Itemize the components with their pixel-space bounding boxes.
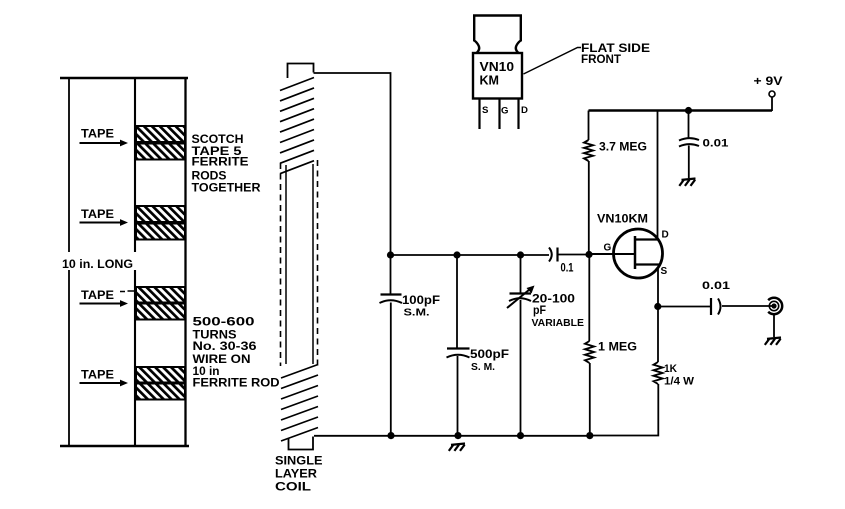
svg-text:COIL: COIL [275, 480, 312, 494]
resistor 1 MEG [585, 341, 594, 363]
svg-text:1/4 W: 1/4 W [664, 376, 695, 388]
VN10KM package body [473, 53, 522, 99]
transistor Q1 drain arm [636, 238, 659, 240]
capacitor 500pF S.M. [447, 349, 470, 358]
svg-text:SINGLE: SINGLE [275, 454, 323, 468]
svg-text:G: G [604, 243, 612, 254]
label: VN10 KM on package [480, 59, 515, 88]
coil L1 bottom cap [289, 437, 314, 450]
node: bottom rail / 500pF ground [454, 432, 461, 439]
wire: 500pF branch lower [457, 356, 459, 436]
capacitor 0.1 gate coupling [549, 248, 558, 262]
wire: coupling cap to output jack [722, 305, 772, 307]
label: 500-600 TURNS No. 30-36 WIRE ON 10 in FERRITE ROD [193, 315, 280, 390]
svg-text:S: S [482, 105, 489, 116]
+9V terminal circle [769, 91, 775, 97]
svg-text:S.M.: S.M. [404, 307, 430, 319]
wire: 1K to bottom rail corner [589, 384, 658, 436]
wire: 3.7 MEG to gate node [588, 161, 590, 255]
coil L1 top cap [288, 64, 314, 79]
label: 0.01 output [702, 280, 730, 292]
capacitor 100pF S.M. [380, 295, 403, 304]
ferrite rod assembly middle line [134, 78, 136, 446]
tape wrap hatched band 6 [136, 304, 185, 320]
wire: 1 MEG to bottom rail [589, 363, 591, 436]
coil L1 form dashed outline [281, 160, 318, 368]
transistor Q1 gate bar [634, 236, 637, 269]
TAPE arrow 2 [80, 219, 129, 226]
svg-text:VARIABLE: VARIABLE [532, 318, 585, 329]
TAPE arrow 1 [80, 140, 129, 147]
svg-text:FERRITE: FERRITE [192, 155, 249, 169]
tape wrap hatched band 4 [136, 224, 185, 240]
wire: 100pF lower to bottom rail [390, 303, 392, 436]
node: 500pF top junction [453, 251, 460, 258]
svg-text:TOGETHER: TOGETHER [192, 181, 261, 195]
wire: 0.1 cap to gate node [559, 254, 590, 256]
tape wrap hatched band 7 [136, 367, 185, 383]
leader line: flat side front [524, 48, 582, 75]
TAPE label 2 [81, 207, 114, 221]
wire: +9V top rail [589, 109, 773, 111]
svg-text:TAPE: TAPE [81, 288, 114, 302]
TAPE label 3 [81, 288, 114, 302]
label: G pin [604, 243, 612, 254]
label: 20-100 pF VARIABLE [532, 292, 585, 330]
VN10KM package tab [474, 16, 521, 54]
wire: gate bus [391, 254, 550, 256]
label: 10 in. LONG [57, 252, 137, 271]
node: source/output junction [654, 303, 661, 310]
svg-text:500pF: 500pF [470, 347, 509, 361]
svg-text:KM: KM [480, 73, 500, 88]
ground: bypass cap [679, 179, 695, 186]
label: SINGLE LAYER COIL [275, 454, 323, 494]
node: bottom rail / variable [517, 432, 524, 439]
node: tank top junction [387, 251, 394, 258]
svg-text:500-600: 500-600 [193, 315, 255, 329]
tape wrap hatched band 8 [136, 384, 185, 400]
svg-text:1K: 1K [664, 363, 677, 375]
wire: coil top to tank node [314, 73, 391, 254]
node: bottom rail / tank [387, 432, 394, 439]
wire: output jack to ground [773, 315, 775, 338]
label: 1 MEG [598, 340, 637, 354]
tape wrap hatched band 2 [136, 144, 185, 160]
VN10KM package lead S [478, 99, 480, 130]
wire: rail riser to +9V terminal [771, 97, 773, 111]
wire: bypass cap to ground [688, 146, 690, 179]
transistor Q1 VN10KM circle [614, 229, 663, 278]
svg-text:TAPE: TAPE [81, 368, 114, 382]
label: 0.01 bypass [703, 138, 729, 150]
output jack connector [768, 298, 782, 314]
wire: drain vertical from rail [657, 111, 659, 238]
svg-text:100pF: 100pF [402, 293, 440, 307]
svg-text:S: S [661, 266, 668, 277]
label: VN10KM [597, 212, 648, 226]
resistor 3.7 MEG [584, 140, 593, 161]
label: package pins S G D [482, 105, 528, 117]
svg-text:TAPE: TAPE [81, 126, 114, 140]
wire: gate node to transistor gate [589, 253, 634, 255]
ferrite rod assembly top edge [60, 77, 188, 80]
capacitor 0.01 output coupling [711, 298, 721, 315]
TAPE arrow 3 [80, 300, 129, 307]
ground: bottom rail [449, 444, 465, 451]
svg-text:0.1: 0.1 [561, 263, 574, 275]
node: gate junction [585, 251, 592, 258]
svg-text:FRONT: FRONT [581, 54, 621, 66]
wire: bias divider vertical upper (rail to 3.7 MEG) [588, 111, 590, 141]
svg-text:LAYER: LAYER [275, 467, 317, 481]
tape wrap hatched band 5 [136, 287, 185, 303]
svg-text:1 MEG: 1 MEG [598, 340, 637, 354]
capacitor 0.01 bypass [679, 138, 699, 146]
svg-text:S. M.: S. M. [471, 361, 495, 373]
TAPE arrow 4 [80, 380, 129, 387]
ferrite rod assembly left side [68, 78, 70, 446]
wire: output node to coupling cap [658, 306, 711, 308]
wire: variable cap branch lower [520, 300, 522, 436]
coil L1 rod solid sides [286, 164, 313, 364]
TAPE 3 pointer dash [120, 290, 134, 293]
wire: 500pF branch upper [456, 255, 458, 348]
wire: bypass cap branch from rail [688, 111, 690, 139]
VN10KM package lead D [517, 99, 519, 130]
tape wrap hatched band 3 [136, 206, 185, 222]
label: D pin [662, 230, 669, 241]
svg-text:D: D [521, 105, 528, 116]
svg-text:G: G [501, 106, 508, 117]
svg-text:FERRITE ROD: FERRITE ROD [193, 376, 280, 390]
wire: bottom ground rail [314, 435, 590, 437]
svg-text:TAPE: TAPE [81, 207, 114, 221]
resistor 1K 1/4W [654, 362, 663, 384]
svg-text:+ 9V: + 9V [754, 76, 783, 88]
ferrite rod assembly right side [184, 78, 186, 446]
label: +9V [754, 76, 783, 88]
variable capacitor 20-100 pF [507, 286, 535, 309]
svg-text:0.01: 0.01 [703, 138, 729, 150]
label: 100pF S.M. [402, 293, 440, 319]
label: SCOTCH TAPE 5 FERRITE RODS TOGETHER [192, 132, 261, 195]
tape wrap hatched band 1 [136, 126, 185, 142]
VN10KM package lead G [498, 99, 500, 130]
node: variable cap top junction [517, 251, 524, 258]
svg-text:No. 30-36: No. 30-36 [193, 339, 257, 353]
coil L1 top winding turns [280, 78, 314, 174]
svg-text:10 in. LONG: 10 in. LONG [62, 257, 133, 271]
label: 3.7 MEG [599, 140, 647, 154]
node: bottom rail / 1 MEG [586, 432, 593, 439]
svg-text:3.7 MEG: 3.7 MEG [599, 140, 647, 154]
wire: gate node to 1 MEG [588, 255, 590, 342]
wire: variable cap branch upper [520, 255, 522, 293]
label: 500pF S. M. [470, 347, 509, 373]
wire: source vertical to output node [657, 267, 659, 362]
svg-text:0.01: 0.01 [702, 280, 730, 292]
node: rail/bypass junction [685, 107, 692, 114]
wire: tank vertical through 100pF upper [390, 255, 392, 294]
transistor Q1 source arm [635, 263, 659, 265]
svg-text:VN10KM: VN10KM [597, 212, 648, 226]
svg-text:D: D [662, 230, 669, 241]
label: 0.1 [561, 263, 574, 275]
coil L1 bottom winding turns [281, 365, 318, 442]
TAPE label 1 [81, 126, 114, 140]
ferrite rod assembly bottom edge [60, 445, 189, 448]
svg-text:pF: pF [533, 303, 546, 317]
label: S pin [661, 266, 668, 277]
label: FLAT SIDE FRONT [581, 43, 650, 66]
TAPE label 4 [81, 368, 114, 382]
label: 1K 1/4 W [664, 363, 695, 388]
ground: output jack [765, 338, 781, 345]
